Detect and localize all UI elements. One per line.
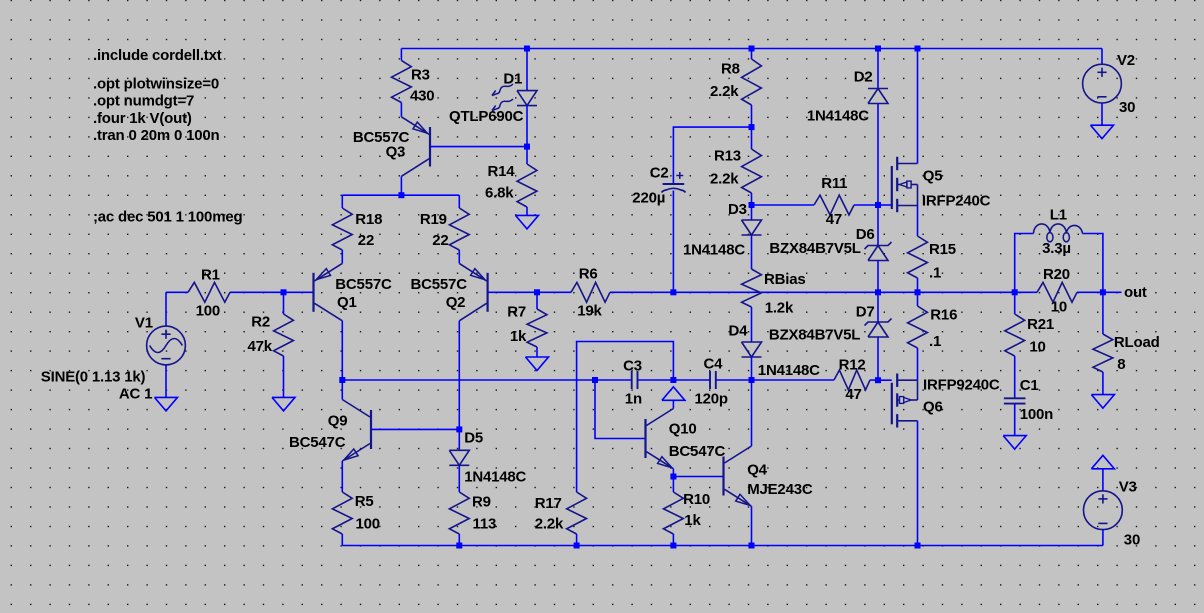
- junction: [574, 543, 580, 549]
- wire Q3 collector: [400, 176, 402, 195]
- svg-text:2.2k: 2.2k: [535, 516, 564, 533]
- svg-text:113: 113: [473, 516, 497, 533]
- svg-text:.include cordell.txt: .include cordell.txt: [93, 47, 222, 64]
- junction: [281, 289, 287, 295]
- junction: [670, 474, 676, 480]
- svg-text:C1: C1: [1020, 377, 1039, 394]
- transistor Q10: [646, 409, 726, 469]
- svg-text:R5: R5: [355, 493, 374, 510]
- svg-text:Q4: Q4: [747, 462, 767, 479]
- svg-text:R17: R17: [535, 495, 562, 512]
- resistor R15: [908, 236, 956, 292]
- wire Q4 base: [673, 476, 723, 478]
- svg-text:BC547C: BC547C: [289, 434, 346, 451]
- node out: [1124, 284, 1147, 301]
- wire: [638, 379, 711, 381]
- resistor R17: [535, 342, 674, 546]
- resistor R11: [752, 175, 879, 228]
- svg-text:R7: R7: [507, 303, 526, 320]
- spice directive .include: [93, 47, 222, 64]
- svg-text:L1: L1: [1050, 206, 1067, 223]
- junction: [456, 426, 462, 432]
- wire compensation rail: [342, 379, 631, 381]
- wire Q6 drain: [917, 421, 919, 546]
- wire Q10 base: [595, 380, 646, 439]
- LED D1: [449, 49, 537, 126]
- diode D3: [683, 201, 762, 269]
- svg-text:1N4148C: 1N4148C: [807, 108, 869, 125]
- svg-text:AC 1: AC 1: [119, 386, 152, 403]
- junction: [456, 543, 462, 549]
- junction: [524, 46, 530, 52]
- wire Q2 base: [488, 291, 537, 293]
- transistor Q2: [411, 263, 488, 320]
- svg-text:R14: R14: [488, 163, 516, 180]
- svg-text:1n: 1n: [625, 391, 642, 408]
- svg-text:R8: R8: [721, 61, 740, 78]
- svg-text:BC557C: BC557C: [335, 276, 392, 293]
- resistor R2: [248, 292, 294, 397]
- junction: [670, 289, 676, 295]
- junction: [749, 377, 755, 383]
- resistor R18: [332, 195, 382, 263]
- svg-text:C3: C3: [623, 358, 642, 375]
- svg-text:120p: 120p: [695, 391, 728, 408]
- resistor R9: [449, 492, 496, 546]
- wire: [716, 379, 752, 381]
- spice directive .opt/.four/.tran block: [93, 76, 220, 145]
- junction: [749, 543, 755, 549]
- inductor L1: [1015, 206, 1103, 292]
- wire out stub: [1103, 291, 1122, 293]
- wire bottom negative rail: [342, 545, 1103, 547]
- junction: [915, 289, 921, 295]
- svg-text:R21: R21: [1027, 316, 1054, 333]
- capacitor C1: [1004, 377, 1053, 436]
- svg-text:1N4148C: 1N4148C: [758, 362, 820, 379]
- svg-text:1k: 1k: [510, 328, 527, 345]
- ground: [1091, 455, 1114, 469]
- transistor Q1: [314, 263, 392, 320]
- junction: [339, 377, 345, 383]
- svg-text:10: 10: [1051, 299, 1067, 316]
- resistor R13: [710, 127, 761, 205]
- svg-text:30: 30: [1119, 99, 1135, 116]
- svg-text:V1: V1: [135, 315, 153, 332]
- wire Q1 collector: [341, 321, 343, 380]
- wire Q4 collector: [751, 380, 753, 446]
- svg-text:R15: R15: [929, 241, 956, 258]
- svg-text:out: out: [1124, 284, 1147, 301]
- svg-text:BZX84B7V5L: BZX84B7V5L: [769, 240, 860, 257]
- svg-text:.1: .1: [929, 333, 941, 350]
- resistor R20: [1015, 266, 1103, 316]
- svg-text:1N4148C: 1N4148C: [464, 469, 526, 486]
- diode D4: [729, 323, 821, 380]
- junction: [875, 377, 881, 383]
- junction: [1012, 289, 1018, 295]
- svg-text:R2: R2: [251, 313, 270, 330]
- junction: [749, 46, 755, 52]
- wire Q5 gate: [878, 204, 892, 206]
- wire top positive rail: [401, 48, 1102, 50]
- svg-text:Q5: Q5: [923, 167, 943, 184]
- resistor R3: [392, 49, 435, 117]
- junction: [670, 377, 676, 383]
- wire Q9 collector: [341, 380, 343, 400]
- svg-text:.opt numdgt=7: .opt numdgt=7: [93, 93, 194, 110]
- zener diode D6: [769, 205, 891, 292]
- svg-text:47k: 47k: [248, 338, 273, 355]
- junction: [398, 192, 404, 198]
- resistor R5: [332, 492, 380, 546]
- wire Q3 base: [430, 146, 527, 148]
- junction: [524, 144, 530, 150]
- junction: [592, 377, 598, 383]
- wire mid rail: [878, 291, 918, 293]
- svg-text:100: 100: [196, 302, 220, 319]
- voltage source V2: [1083, 49, 1136, 126]
- svg-text:220µ: 220µ: [632, 190, 665, 207]
- pmos Q6: [892, 374, 1000, 428]
- svg-text:IRFP9240C: IRFP9240C: [923, 376, 1000, 393]
- svg-text:6.8k: 6.8k: [485, 184, 514, 201]
- svg-text:22: 22: [432, 232, 448, 249]
- svg-text:430: 430: [410, 88, 434, 105]
- svg-text:R11: R11: [821, 175, 847, 192]
- resistor R6: [537, 265, 673, 319]
- ground: [1003, 436, 1026, 450]
- svg-text:R18: R18: [355, 211, 382, 228]
- junction: [749, 202, 755, 208]
- svg-text:19k: 19k: [577, 303, 602, 320]
- svg-text:MJE243C: MJE243C: [747, 481, 813, 498]
- resistor RLoad: [1093, 292, 1160, 394]
- svg-text:Q1: Q1: [337, 294, 357, 311]
- junction: [875, 289, 881, 295]
- svg-text:D5: D5: [464, 430, 483, 447]
- svg-text:SINE(0 1.13 1k): SINE(0 1.13 1k): [41, 369, 146, 386]
- wire Q5 source: [917, 206, 919, 237]
- svg-text:.1: .1: [929, 264, 941, 281]
- junction: [875, 202, 881, 208]
- wire Q10 emitter: [672, 469, 674, 477]
- wire Q2 collector: [458, 321, 460, 430]
- svg-text:10: 10: [1029, 339, 1045, 356]
- svg-text:47: 47: [826, 211, 842, 228]
- svg-text:.four 1k V(out): .four 1k V(out): [93, 110, 192, 127]
- svg-text:100: 100: [356, 516, 380, 533]
- svg-text:30: 30: [1124, 531, 1140, 548]
- svg-text:R16: R16: [930, 307, 957, 324]
- svg-text:1.2k: 1.2k: [765, 299, 794, 316]
- svg-text:D3: D3: [728, 201, 747, 218]
- svg-text:BC547C: BC547C: [669, 443, 726, 460]
- svg-text:.tran 0 20m 0 100n: .tran 0 20m 0 100n: [93, 127, 220, 144]
- transistor Q4: [724, 446, 813, 506]
- svg-text:47: 47: [845, 386, 861, 403]
- nmos Q5: [892, 157, 991, 212]
- svg-text:R9: R9: [472, 494, 491, 511]
- wire Q9 emitter: [341, 461, 343, 492]
- resistor R16: [908, 292, 958, 380]
- ground: [1091, 395, 1114, 409]
- wire Q4 emitter: [751, 506, 753, 545]
- svg-text:Q6: Q6: [923, 398, 943, 415]
- wire Q1 base: [284, 291, 314, 293]
- transistor Q3: [353, 117, 430, 177]
- svg-text:V2: V2: [1117, 52, 1135, 69]
- svg-text:R6: R6: [579, 265, 598, 282]
- resistor R19: [420, 195, 469, 263]
- svg-text:22: 22: [358, 232, 374, 249]
- svg-text:D4: D4: [729, 323, 749, 340]
- capacitor C2: [632, 127, 751, 292]
- svg-text:1k: 1k: [684, 512, 701, 529]
- svg-text:BC557C: BC557C: [411, 276, 468, 293]
- capacitor C4: [695, 356, 728, 408]
- svg-text:R13: R13: [714, 148, 741, 165]
- svg-text:BZX84B7V5L: BZX84B7V5L: [769, 326, 860, 343]
- transistor Q9: [289, 400, 371, 462]
- svg-text:Q3: Q3: [386, 144, 406, 161]
- resistor R10: [664, 477, 711, 546]
- junction: [670, 543, 676, 549]
- zener diode D7: [769, 292, 892, 380]
- svg-text:R12: R12: [839, 356, 866, 373]
- svg-text:D2: D2: [854, 68, 873, 85]
- resistor R1: [166, 266, 284, 319]
- resistor RBias: [742, 269, 806, 342]
- diode D5: [449, 429, 526, 492]
- svg-text:R3: R3: [411, 67, 430, 84]
- ground: [516, 215, 539, 229]
- svg-text:R1: R1: [201, 266, 220, 283]
- svg-text:R10: R10: [683, 491, 710, 508]
- svg-text:Q10: Q10: [669, 421, 697, 438]
- junction: [915, 46, 921, 52]
- resistor R21: [1005, 292, 1054, 398]
- svg-text:R20: R20: [1043, 266, 1070, 283]
- junction: [875, 46, 881, 52]
- svg-text:RBias: RBias: [764, 271, 806, 288]
- voltage source V1: [41, 292, 186, 402]
- wire Q6 gate: [878, 379, 892, 381]
- svg-text:;ac dec 501 1 100meg: ;ac dec 501 1 100meg: [93, 209, 242, 226]
- svg-text:Q9: Q9: [328, 413, 348, 430]
- wire Q9 base: [371, 428, 459, 430]
- svg-text:R19: R19: [420, 211, 447, 228]
- ground: [662, 387, 685, 401]
- junction: [749, 124, 755, 130]
- svg-text:8: 8: [1117, 356, 1125, 373]
- resistor R8: [710, 49, 761, 128]
- junction: [1100, 289, 1106, 295]
- ground: [526, 357, 549, 371]
- svg-text:100n: 100n: [1020, 406, 1053, 423]
- svg-text:D7: D7: [856, 304, 875, 321]
- wire mid rail: [673, 291, 878, 293]
- svg-text:RLoad: RLoad: [1114, 334, 1160, 351]
- ground: [1091, 125, 1114, 139]
- svg-text:V3: V3: [1119, 479, 1137, 496]
- wire Q10 collector: [672, 400, 674, 408]
- capacitor C3: [623, 358, 642, 408]
- svg-text:Q2: Q2: [446, 294, 466, 311]
- resistor R7: [507, 292, 547, 357]
- wire Q5 drain: [917, 49, 919, 164]
- junction: [534, 289, 540, 295]
- svg-text:C4: C4: [704, 356, 724, 373]
- resistor R14: [485, 106, 537, 216]
- svg-text:QTLP690C: QTLP690C: [449, 108, 524, 125]
- junction: [915, 543, 921, 549]
- svg-text:2.2k: 2.2k: [710, 171, 739, 188]
- voltage source V3: [1084, 469, 1141, 549]
- ground: [272, 397, 295, 411]
- spice comment ;ac: [93, 209, 242, 226]
- svg-text:2.2k: 2.2k: [710, 83, 739, 100]
- svg-text:IRFP240C: IRFP240C: [922, 192, 991, 209]
- wire diff-pair tail: [342, 194, 459, 196]
- svg-text:3.3µ: 3.3µ: [1042, 240, 1071, 257]
- svg-text:1N4148C: 1N4148C: [683, 242, 745, 259]
- diode D2: [807, 49, 888, 206]
- svg-text:C2: C2: [650, 165, 669, 182]
- wire mid rail: [918, 291, 1015, 293]
- svg-text:D1: D1: [503, 71, 522, 88]
- svg-text:.opt plotwinsize=0: .opt plotwinsize=0: [93, 76, 219, 93]
- ground: [155, 397, 178, 411]
- resistor R12: [752, 356, 879, 403]
